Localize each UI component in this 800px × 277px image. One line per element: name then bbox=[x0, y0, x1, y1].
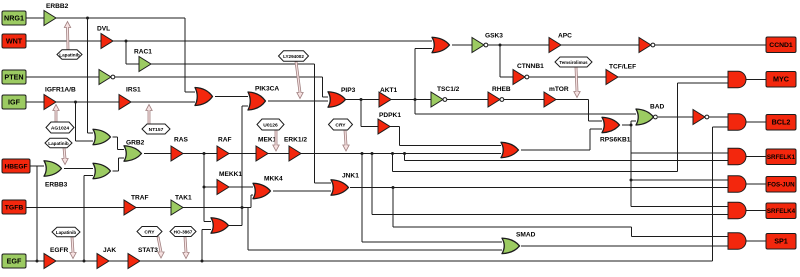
svg-text:NRG1: NRG1 bbox=[4, 13, 24, 22]
svg-text:JNK1: JNK1 bbox=[342, 173, 359, 180]
svg-text:SMAD: SMAD bbox=[516, 232, 536, 239]
svg-text:PIK3CA: PIK3CA bbox=[255, 86, 279, 93]
svg-text:U0126: U0126 bbox=[263, 122, 278, 128]
svg-text:TCF/LEF: TCF/LEF bbox=[609, 64, 636, 71]
svg-text:Lapatinib: Lapatinib bbox=[56, 230, 77, 235]
svg-text:EGF: EGF bbox=[7, 256, 22, 265]
svg-text:GRB2: GRB2 bbox=[126, 140, 145, 147]
svg-text:DVL: DVL bbox=[97, 26, 110, 33]
svg-text:FOS-JUN: FOS-JUN bbox=[767, 182, 795, 189]
svg-text:PIP3: PIP3 bbox=[341, 87, 356, 94]
svg-text:TAK1: TAK1 bbox=[175, 195, 192, 202]
svg-text:SP1: SP1 bbox=[774, 237, 788, 246]
svg-text:ERBB2: ERBB2 bbox=[46, 3, 69, 10]
svg-text:WNT: WNT bbox=[6, 36, 23, 45]
svg-text:IGFR1A/B: IGFR1A/B bbox=[45, 87, 76, 94]
svg-text:Lapatinib: Lapatinib bbox=[48, 141, 69, 146]
svg-text:AG1024: AG1024 bbox=[51, 125, 69, 131]
svg-text:ERK1/2: ERK1/2 bbox=[284, 137, 307, 144]
svg-text:CTNNB1: CTNNB1 bbox=[517, 63, 544, 70]
svg-text:RHEB: RHEB bbox=[492, 86, 511, 93]
svg-text:CRY: CRY bbox=[144, 229, 155, 235]
svg-text:RPS6KB1: RPS6KB1 bbox=[600, 137, 631, 144]
svg-text:STAT3: STAT3 bbox=[138, 247, 158, 254]
svg-text:HBEGF: HBEGF bbox=[4, 163, 27, 170]
svg-text:MEK1: MEK1 bbox=[258, 137, 277, 144]
svg-text:BAD: BAD bbox=[650, 104, 665, 111]
svg-text:RAC1: RAC1 bbox=[134, 49, 152, 56]
svg-text:MYC: MYC bbox=[773, 75, 789, 84]
svg-text:APC: APC bbox=[558, 33, 572, 40]
svg-text:IRS1: IRS1 bbox=[126, 87, 141, 94]
svg-text:CCND1: CCND1 bbox=[769, 42, 793, 49]
svg-text:AKT1: AKT1 bbox=[380, 87, 398, 94]
svg-text:LY294002: LY294002 bbox=[283, 54, 304, 59]
svg-text:JAK: JAK bbox=[103, 247, 116, 254]
svg-text:RAS: RAS bbox=[174, 137, 189, 144]
svg-text:TRAF: TRAF bbox=[131, 195, 149, 202]
svg-text:Lapatinib: Lapatinib bbox=[59, 52, 80, 57]
svg-text:MKK4: MKK4 bbox=[264, 176, 283, 183]
svg-text:MEKK1: MEKK1 bbox=[219, 171, 242, 178]
svg-text:EGFR: EGFR bbox=[50, 247, 69, 254]
svg-text:SRFELK1: SRFELK1 bbox=[767, 154, 796, 161]
svg-text:TSC1/2: TSC1/2 bbox=[437, 86, 460, 93]
svg-text:ERBB3: ERBB3 bbox=[45, 182, 68, 189]
svg-text:SRFELK4: SRFELK4 bbox=[767, 208, 796, 215]
svg-text:PTEN: PTEN bbox=[4, 72, 23, 81]
svg-text:mTOR: mTOR bbox=[549, 86, 569, 93]
svg-text:TGFB: TGFB bbox=[5, 204, 24, 211]
svg-text:CRY: CRY bbox=[335, 122, 346, 128]
svg-text:Temsirolimus: Temsirolimus bbox=[559, 60, 588, 65]
svg-text:GSK3: GSK3 bbox=[485, 33, 503, 40]
svg-text:IGF: IGF bbox=[8, 97, 21, 106]
svg-text:NT157: NT157 bbox=[149, 127, 164, 133]
svg-text:PDPK1: PDPK1 bbox=[379, 112, 401, 119]
svg-text:BCL2: BCL2 bbox=[772, 118, 791, 127]
svg-text:RAF: RAF bbox=[218, 137, 232, 144]
svg-text:HO-3867: HO-3867 bbox=[174, 229, 193, 234]
